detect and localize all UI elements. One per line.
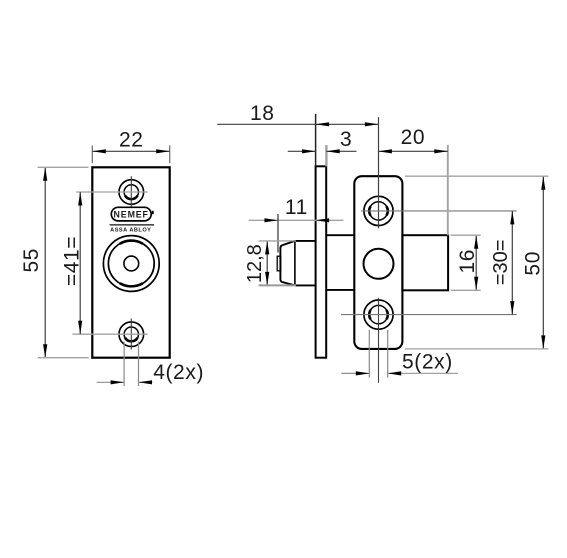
svg-text:50: 50 xyxy=(522,251,545,276)
svg-text:12,8: 12,8 xyxy=(244,244,266,283)
svg-text:20: 20 xyxy=(401,126,426,149)
svg-text:=41=: =41= xyxy=(61,236,84,286)
svg-text:18: 18 xyxy=(250,102,275,125)
svg-text:NEMEF: NEMEF xyxy=(114,209,149,219)
svg-text:5(2x): 5(2x) xyxy=(402,351,453,374)
svg-text:22: 22 xyxy=(119,128,144,151)
svg-text:11: 11 xyxy=(285,196,308,219)
svg-text:16: 16 xyxy=(456,249,479,274)
svg-text:ASSA ABLOY: ASSA ABLOY xyxy=(110,228,151,234)
svg-text:3: 3 xyxy=(340,128,352,151)
svg-text:55: 55 xyxy=(20,248,43,273)
svg-text:=30=: =30= xyxy=(490,240,512,286)
svg-text:4(2x): 4(2x) xyxy=(153,361,204,384)
